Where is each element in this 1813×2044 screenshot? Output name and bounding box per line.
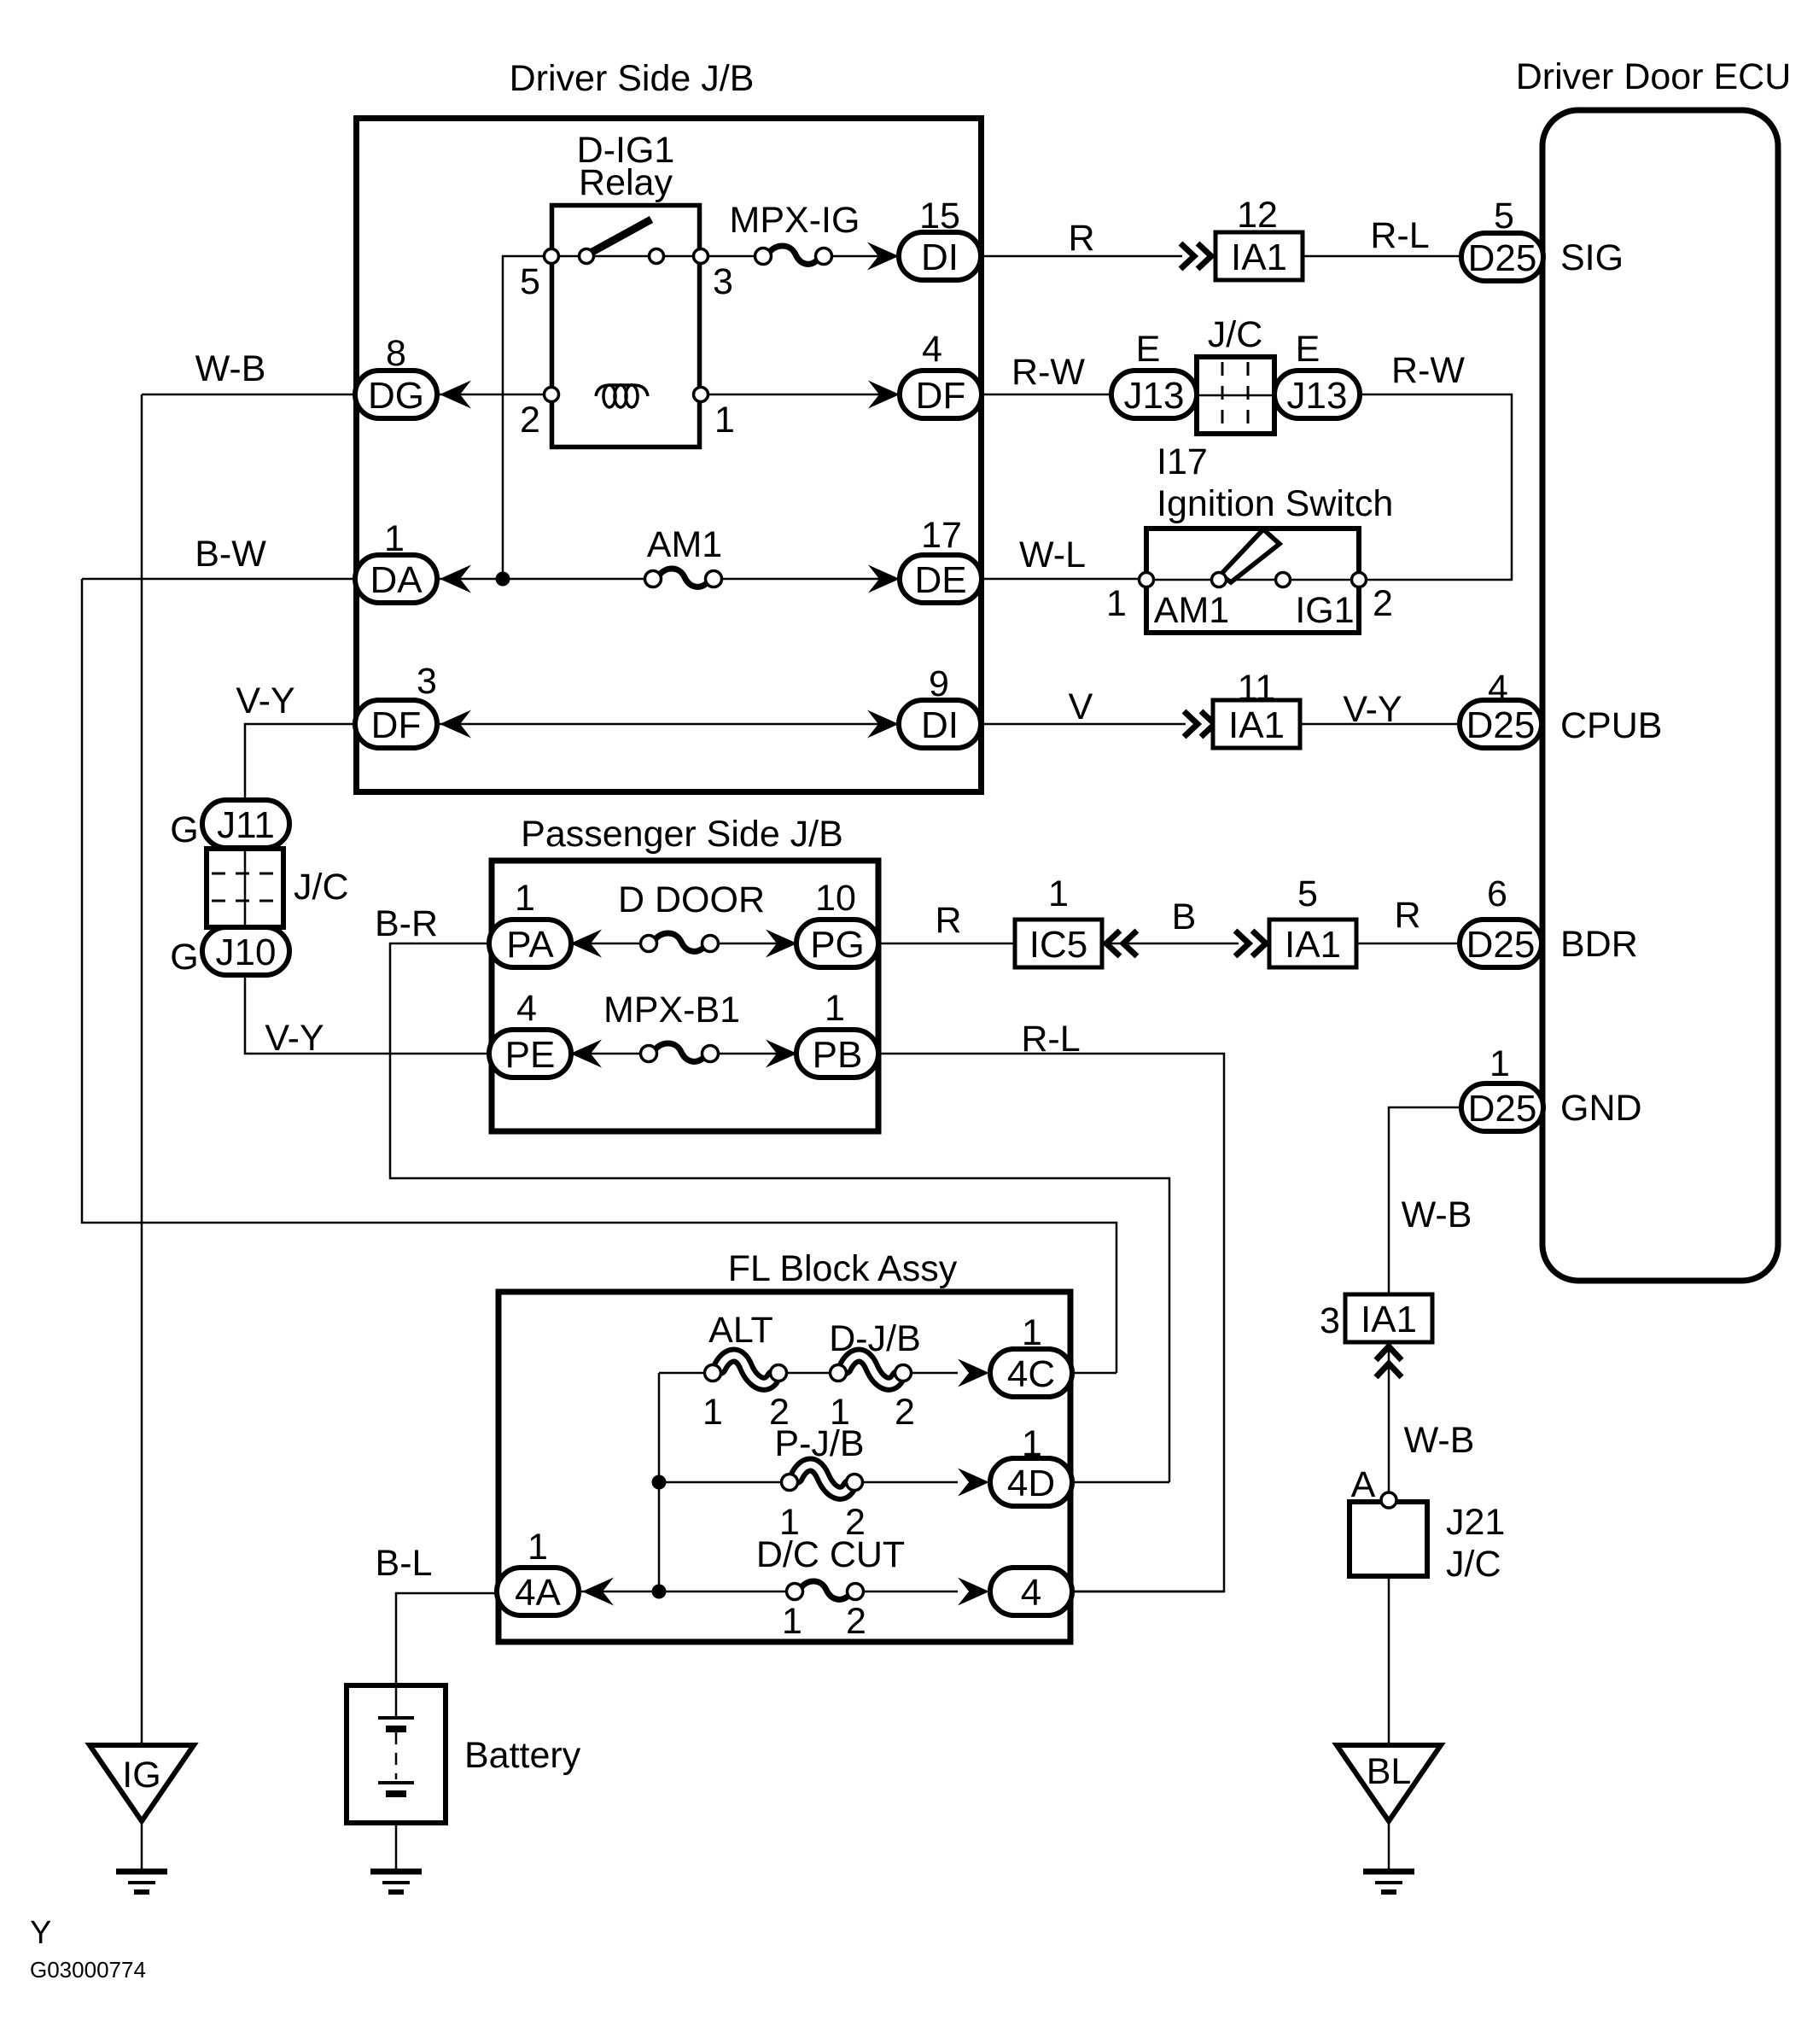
arrow into DI(9) xyxy=(867,710,899,739)
wire from J21 J/C down to BL triangle xyxy=(1388,1577,1390,1745)
arrow into PE xyxy=(570,1040,602,1068)
svg-text:R-W: R-W xyxy=(1391,350,1465,391)
connector IC5 pin 1 xyxy=(1015,920,1102,967)
svg-text:PB: PB xyxy=(813,1034,863,1076)
svg-text:12: 12 xyxy=(1237,195,1278,236)
wire W-B from left riser to DG xyxy=(142,394,357,396)
svg-text:G: G xyxy=(170,809,198,850)
svg-text:PA: PA xyxy=(506,924,554,966)
svg-text:Battery: Battery xyxy=(464,1735,581,1776)
svg-text:MPX-IG: MPX-IG xyxy=(730,200,860,241)
connector IA1 pin 5 xyxy=(1269,920,1356,967)
svg-text:IA1: IA1 xyxy=(1285,924,1341,966)
ignition switch pin 2 terminal xyxy=(1352,573,1367,587)
ground symbol IG xyxy=(116,1872,167,1892)
svg-text:1: 1 xyxy=(782,1601,802,1642)
connector DI pin 9 xyxy=(899,700,981,748)
svg-text:D25: D25 xyxy=(1468,237,1537,279)
svg-text:5: 5 xyxy=(1297,873,1318,914)
arrow into 4C xyxy=(958,1359,989,1387)
svg-text:B-L: B-L xyxy=(376,1543,433,1584)
wire V-Y from J10 down to PE xyxy=(245,973,490,1054)
svg-text:Passenger Side J/B: Passenger Side J/B xyxy=(521,814,843,855)
wire relay pin5 to junction at DA wire xyxy=(503,256,551,579)
battery cell symbol xyxy=(378,1685,414,1794)
svg-text:J13: J13 xyxy=(1124,375,1185,417)
ignition switch pin 1 terminal xyxy=(1140,573,1154,587)
svg-text:G03000774: G03000774 xyxy=(30,1957,146,1983)
wire bus to P-J/B fuse xyxy=(659,1481,783,1484)
svg-text:IG1: IG1 xyxy=(1295,590,1354,631)
svg-text:I17: I17 xyxy=(1157,441,1208,482)
relay switch blade xyxy=(591,219,651,253)
fuse ALT xyxy=(705,1356,787,1384)
svg-text:R: R xyxy=(1068,218,1094,259)
fuse P-J/B xyxy=(782,1465,863,1493)
svg-text:B-R: B-R xyxy=(375,903,438,944)
svg-text:4A: 4A xyxy=(515,1572,561,1614)
connector DF pin 4 xyxy=(900,371,982,418)
svg-text:DA: DA xyxy=(370,559,423,601)
relay D-IG1 box xyxy=(552,206,700,447)
connector J10, G xyxy=(202,927,289,975)
svg-text:1: 1 xyxy=(1022,1423,1042,1464)
fuse AM1 xyxy=(645,569,722,587)
svg-text:SIG: SIG xyxy=(1560,237,1624,278)
wire V-Y from DF(3) to J11 xyxy=(245,724,357,803)
connector 4D pin 1 xyxy=(990,1458,1072,1506)
junction A terminal circle xyxy=(1381,1492,1396,1508)
wire relay pin3 to MPX-IG fuse xyxy=(701,255,755,258)
connector PB pin 1 xyxy=(796,1030,878,1077)
svg-text:W-B: W-B xyxy=(1402,1194,1472,1235)
svg-text:Driver Door ECU: Driver Door ECU xyxy=(1516,56,1792,97)
arrow into DF(3) xyxy=(440,710,471,739)
wire P-J/B fuse to 4D xyxy=(861,1481,958,1484)
svg-text:R: R xyxy=(1394,895,1420,936)
svg-text:D/C CUT: D/C CUT xyxy=(756,1534,905,1575)
arrow into 4D xyxy=(958,1469,989,1497)
ground symbol battery xyxy=(370,1872,422,1892)
svg-text:ALT: ALT xyxy=(708,1310,773,1351)
wire W-B from D25(1) GND down to IA1(3) xyxy=(1389,1107,1462,1295)
relay switch contact b xyxy=(650,249,664,264)
svg-text:4D: 4D xyxy=(1007,1463,1055,1504)
wire 4C out to riser xyxy=(1072,1372,1116,1375)
wire DI(15) to IA1(12) chevron, R xyxy=(980,255,1182,258)
svg-text:1: 1 xyxy=(515,878,535,919)
wire ALT fuse feed xyxy=(659,1372,706,1375)
svg-text:1: 1 xyxy=(1048,873,1069,914)
wire ALT fuse to D-J/B fuse xyxy=(785,1372,831,1375)
svg-text:4: 4 xyxy=(1021,1572,1041,1614)
ignition switch contact row xyxy=(1146,579,1359,581)
relay switch contact line xyxy=(551,255,701,258)
wire DE(17) to ignition switch pin1, W-L xyxy=(982,578,1146,581)
wire DF(3) to DI(9) xyxy=(437,723,899,726)
Passenger Side J/B box xyxy=(492,861,878,1131)
svg-text:W-B: W-B xyxy=(195,348,266,389)
Driver Door ECU box xyxy=(1542,110,1778,1281)
connector J13 left, E xyxy=(1111,371,1197,418)
relay switch contact a xyxy=(580,249,594,264)
svg-text:17: 17 xyxy=(921,515,962,556)
wire MPX-IG fuse to DI connector xyxy=(832,255,899,258)
relay coil xyxy=(596,385,648,407)
connector PG pin 10 xyxy=(796,920,878,967)
svg-text:4C: 4C xyxy=(1007,1353,1055,1395)
connector IA1 pin 12 xyxy=(1215,232,1303,280)
relay pin 5 terminal xyxy=(545,249,559,264)
svg-text:IG: IG xyxy=(122,1755,160,1796)
svg-text:Ignition Switch: Ignition Switch xyxy=(1157,483,1393,524)
fuse D DOOR xyxy=(641,933,719,952)
svg-text:FL Block Assy: FL Block Assy xyxy=(728,1248,958,1289)
connector DI pin 15 xyxy=(899,232,981,280)
svg-text:2: 2 xyxy=(1373,583,1393,624)
svg-text:IA1: IA1 xyxy=(1361,1299,1417,1340)
arrow into PA xyxy=(570,930,602,958)
svg-text:1: 1 xyxy=(384,518,405,559)
arrow into 4 xyxy=(958,1578,989,1606)
wire 4 out to riser xyxy=(1072,1591,1224,1593)
wire DG to relay pin2 xyxy=(437,394,551,396)
svg-text:4: 4 xyxy=(922,329,942,370)
arrow into 4A xyxy=(582,1578,614,1606)
svg-text:Y: Y xyxy=(30,1915,51,1951)
arrow into DF(4) xyxy=(868,381,900,409)
connector J13 right, E xyxy=(1274,371,1360,418)
relay pin 1 terminal xyxy=(694,388,708,402)
svg-text:BDR: BDR xyxy=(1560,924,1638,965)
svg-text:B-W: B-W xyxy=(195,534,266,575)
wire 4D out to riser xyxy=(1072,1481,1169,1484)
connector 4A pin 1 xyxy=(497,1568,579,1615)
chevron below IA1(3) xyxy=(1376,1346,1402,1377)
svg-text:P-J/B: P-J/B xyxy=(774,1423,864,1464)
svg-text:B: B xyxy=(1172,896,1197,937)
svg-text:5: 5 xyxy=(1494,196,1514,237)
svg-text:D25: D25 xyxy=(1466,924,1536,966)
svg-text:Driver Side J/B: Driver Side J/B xyxy=(510,58,755,99)
connector DF pin 3 xyxy=(355,700,437,748)
wire B-L from 4A to battery xyxy=(396,1593,496,1718)
wire relay pin2 to coil xyxy=(551,394,597,396)
junction dot DA/relay pin5 xyxy=(496,572,510,587)
wire PA to D DOOR fuse xyxy=(570,943,649,945)
svg-text:R-W: R-W xyxy=(1011,352,1085,393)
svg-text:W-L: W-L xyxy=(1019,534,1086,575)
svg-text:D DOOR: D DOOR xyxy=(618,879,765,920)
wire J13 through J/C xyxy=(1197,394,1278,396)
svg-text:DF: DF xyxy=(916,375,966,417)
svg-text:IA1: IA1 xyxy=(1231,237,1287,278)
wire IC5 chevrons to IA1(5), B xyxy=(1103,943,1239,945)
svg-text:6: 6 xyxy=(1487,873,1507,914)
chevron out of IC5 xyxy=(1106,931,1137,956)
svg-text:J11: J11 xyxy=(217,804,275,846)
FL Block Assy box xyxy=(498,1292,1070,1642)
svg-text:1: 1 xyxy=(1106,583,1127,624)
wire 4A to D/C CUT fuse xyxy=(580,1591,786,1593)
svg-text:D-J/B: D-J/B xyxy=(829,1318,921,1359)
connector 4C pin 1 xyxy=(990,1349,1072,1397)
connector IA1 pin 11 xyxy=(1213,700,1300,748)
svg-text:PG: PG xyxy=(810,924,865,966)
svg-text:A: A xyxy=(1351,1464,1376,1505)
svg-text:J21: J21 xyxy=(1446,1502,1505,1543)
connector PE pin 4 xyxy=(489,1030,571,1077)
svg-text:DI: DI xyxy=(921,237,959,278)
svg-text:D25: D25 xyxy=(1468,1088,1537,1130)
wire R-L from PB down to connector 4 xyxy=(877,1054,1224,1591)
chevron into IA1(11) xyxy=(1184,711,1215,737)
svg-text:R-L: R-L xyxy=(1370,215,1429,256)
svg-text:DG: DG xyxy=(368,375,424,417)
svg-text:1: 1 xyxy=(714,400,735,441)
connector D25 pin 4 xyxy=(1460,700,1542,748)
wire IA1(11) to D25(4), V-Y xyxy=(1300,723,1460,726)
connector D25 pin 5 xyxy=(1461,233,1543,281)
svg-text:DF: DF xyxy=(371,704,422,746)
svg-text:AM1: AM1 xyxy=(647,524,722,565)
arrow into DA xyxy=(440,565,471,593)
svg-text:V-Y: V-Y xyxy=(1343,689,1402,730)
svg-text:4: 4 xyxy=(516,988,537,1029)
svg-text:1: 1 xyxy=(528,1527,548,1568)
wire BL triangle to ground xyxy=(1388,1821,1390,1870)
wire PE to MPX-B1 fuse xyxy=(570,1053,649,1055)
Driver Side J/B box xyxy=(357,119,982,792)
chevron into IA1(12) xyxy=(1180,243,1211,269)
wire IA1(12) to D25(5), R-L xyxy=(1303,255,1462,258)
junction connector J21 J/C box xyxy=(1350,1502,1427,1576)
svg-text:W-B: W-B xyxy=(1404,1420,1475,1461)
fuse MPX-B1 xyxy=(641,1043,719,1062)
wire B-W from left riser to DA xyxy=(82,578,357,581)
svg-text:MPX-B1: MPX-B1 xyxy=(603,990,740,1031)
connector DA pin 1 xyxy=(355,555,437,603)
svg-text:3: 3 xyxy=(1320,1300,1340,1341)
wire DA to AM1 fuse xyxy=(437,578,644,581)
wire D DOOR fuse to PG xyxy=(710,943,797,945)
wire DI(9) to IA1(11) chevron, V xyxy=(980,723,1186,726)
fuse D/C CUT xyxy=(787,1581,864,1600)
connector DG pin 8 xyxy=(355,371,437,418)
fuse MPX-IG xyxy=(755,246,832,265)
ignition switch lever xyxy=(1221,529,1280,582)
arrow into DG xyxy=(440,381,471,409)
svg-text:1: 1 xyxy=(825,988,845,1029)
svg-text:R-L: R-L xyxy=(1021,1019,1080,1060)
svg-text:1: 1 xyxy=(1022,1312,1042,1353)
svg-text:DE: DE xyxy=(914,559,966,601)
wire W-B from IA1(3) to J21 junction A xyxy=(1388,1341,1390,1500)
svg-text:G: G xyxy=(170,937,198,978)
wire B-R from PA down and across to 4D xyxy=(390,943,1169,1482)
wire FL block left bus xyxy=(658,1373,661,1591)
wire AM1 fuse to DE(17) xyxy=(722,578,899,581)
svg-text:J10: J10 xyxy=(216,931,277,973)
svg-text:J13: J13 xyxy=(1287,375,1348,417)
svg-text:PE: PE xyxy=(505,1034,556,1076)
svg-text:10: 10 xyxy=(815,878,856,919)
svg-text:V-Y: V-Y xyxy=(236,680,294,721)
arrow into DI(15) xyxy=(867,242,899,271)
connector DE pin 17 xyxy=(900,555,982,603)
svg-text:E: E xyxy=(1296,329,1320,370)
svg-text:5: 5 xyxy=(520,261,540,302)
svg-text:4: 4 xyxy=(1488,668,1508,709)
svg-text:1: 1 xyxy=(1489,1043,1510,1084)
chevron into IA1(5) xyxy=(1235,931,1266,956)
svg-text:V-Y: V-Y xyxy=(265,1018,324,1059)
junction dot FL bus at P-J/B row xyxy=(652,1475,667,1490)
svg-text:D25: D25 xyxy=(1466,704,1536,746)
wire PG to IC5, R xyxy=(877,943,1015,945)
ground triangle BL xyxy=(1337,1745,1441,1821)
svg-text:AM1: AM1 xyxy=(1154,590,1229,631)
svg-text:IA1: IA1 xyxy=(1228,704,1285,746)
svg-text:GND: GND xyxy=(1560,1088,1642,1129)
wire DF(4) to J13 left, R-W xyxy=(982,394,1111,396)
arrow into DE(17) xyxy=(868,565,900,593)
svg-text:IC5: IC5 xyxy=(1029,924,1087,966)
ground symbol BL xyxy=(1363,1872,1414,1892)
svg-text:DI: DI xyxy=(921,704,959,746)
svg-text:J/C: J/C xyxy=(1208,314,1263,355)
connector J11, G xyxy=(202,800,289,848)
arrow into PG xyxy=(766,930,797,958)
arrow into PB xyxy=(766,1040,797,1068)
svg-text:E: E xyxy=(1136,329,1161,370)
wire IA1(5) to D25(6), R xyxy=(1355,943,1461,945)
battery box xyxy=(347,1685,446,1823)
relay pin 2 terminal xyxy=(545,388,559,402)
relay pin 3 terminal xyxy=(694,249,708,264)
svg-text:2: 2 xyxy=(846,1601,866,1642)
svg-text:3: 3 xyxy=(713,261,733,302)
svg-text:11: 11 xyxy=(1238,668,1276,709)
wire MPX-B1 fuse to PB xyxy=(710,1053,797,1055)
wire D-J/B fuse to 4C xyxy=(910,1372,958,1375)
svg-text:V: V xyxy=(1069,686,1093,727)
wire W-B riser down to IG ground triangle xyxy=(141,394,143,1745)
svg-text:3: 3 xyxy=(417,661,437,702)
svg-text:J/C: J/C xyxy=(1446,1544,1501,1585)
wire D/C CUT fuse to 4 xyxy=(863,1591,958,1593)
svg-text:R: R xyxy=(935,900,961,941)
wire battery negative to ground xyxy=(395,1794,398,1872)
wire IG triangle to ground xyxy=(141,1821,143,1870)
svg-text:CPUB: CPUB xyxy=(1560,705,1662,746)
junction connector J/C (J11/J10) xyxy=(207,849,283,927)
wire relay pin1 to DF(4) xyxy=(701,394,900,396)
ignition switch IG1 contact xyxy=(1276,573,1291,587)
svg-text:15: 15 xyxy=(919,196,960,237)
svg-text:8: 8 xyxy=(386,333,406,374)
wire B-W riser down and across to 4C xyxy=(82,579,1116,1373)
connector D25 pin 6 xyxy=(1460,920,1542,967)
svg-text:2: 2 xyxy=(895,1392,915,1433)
connector 4 xyxy=(990,1568,1072,1615)
ignition switch AM1 contact xyxy=(1212,573,1227,587)
svg-text:Relay: Relay xyxy=(579,162,673,203)
wire coil to relay pin1 xyxy=(648,394,701,396)
svg-text:9: 9 xyxy=(929,663,949,704)
fuse D-J/B xyxy=(831,1356,912,1384)
junction dot FL bus at D/C CUT row xyxy=(652,1585,667,1599)
junction connector J/C (J13) xyxy=(1197,357,1274,434)
svg-text:2: 2 xyxy=(520,400,540,441)
connector PA pin 1 xyxy=(489,920,571,967)
connector D25 pin 1 xyxy=(1461,1083,1543,1131)
svg-text:J/C: J/C xyxy=(294,867,349,908)
svg-text:1: 1 xyxy=(702,1392,723,1433)
connector IA1 pin 3 xyxy=(1345,1294,1432,1342)
svg-text:BL: BL xyxy=(1367,1751,1412,1792)
ignition switch I17 box xyxy=(1146,529,1359,633)
wire J13 right to ignition switch pin2, R-W xyxy=(1357,394,1512,580)
ground triangle IG xyxy=(90,1745,194,1821)
